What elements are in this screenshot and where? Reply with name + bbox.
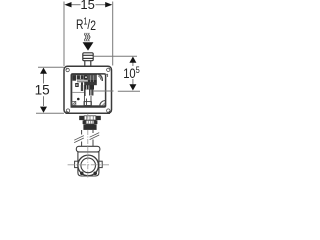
pipe bundle hatch (81, 85, 84, 95)
water supply squiggle symbol (85, 33, 90, 41)
dimension 15 left: down arrowhead (40, 107, 47, 113)
box bottom edge emphasis (66, 113, 111, 115)
reference line inside box (93, 90, 113, 92)
dimension 15 top: left extension line (63, 2, 65, 67)
elbow foot bolt left (80, 172, 84, 176)
lower mechanism blocks (81, 82, 83, 91)
bottom-left hatched block (72, 101, 76, 105)
dimension 15 left: up arrowhead (40, 68, 47, 74)
corner screw bottom-left (66, 109, 69, 112)
dimension 15 left: bottom extension line (36, 112, 64, 114)
dimension 15 top: dimension line (70, 4, 106, 6)
dimension 10^5: up arrowhead (129, 57, 136, 63)
fill valve mid hatch block (77, 79, 88, 82)
elbow body (78, 152, 99, 176)
dimension 10^5: dimension line (132, 63, 134, 67)
flush bend lower quarter arc fillet (100, 101, 106, 107)
fill valve upper dark band (72, 75, 84, 79)
elbow outlet inner circle (81, 158, 96, 173)
elbow foot bolt right (93, 172, 97, 176)
flush pipe walls (82, 130, 93, 146)
corner screw bottom-right (107, 109, 110, 112)
outlet connector dark block (83, 124, 96, 130)
corner screw top-left (66, 68, 69, 71)
small dark dot (77, 98, 80, 101)
supply fitting R1/2 connector (83, 53, 93, 66)
elbow side lug left (75, 161, 78, 167)
flush pipe inside box (84, 90, 86, 97)
dimension 10^5: down arrowhead (129, 84, 136, 90)
corner screw top-right (107, 68, 110, 71)
elbow outlet outer circle (78, 155, 99, 176)
vertical centerline upper (87, 114, 89, 124)
elbow hub (sleeve) (76, 146, 100, 152)
inner frame top edge bar (72, 74, 98, 75)
svg-text:15: 15 (80, 0, 94, 12)
inner service panel frame (71, 74, 105, 107)
dimension 15 left: top extension line (38, 66, 64, 68)
outlet connector below box: nut (79, 116, 101, 120)
bottom-center outlet collar (84, 102, 91, 106)
cistern box outer frame (64, 66, 112, 113)
inner frame left edge bar (71, 75, 73, 107)
vertical centerline lower (87, 146, 89, 177)
fill valve lower-left block with white dot (75, 83, 79, 87)
dimension 15 top: left arrowhead (64, 2, 71, 7)
pipe break marks (74, 133, 99, 143)
supply arrowhead (83, 42, 94, 50)
valve nut with white dot (84, 75, 88, 80)
inner frame bottom edge bar (71, 105, 105, 107)
outlet pipe to panel bottom (84, 96, 91, 105)
horizontal centerline through elbow (68, 164, 109, 166)
elbow side lug right (99, 161, 102, 167)
outlet connector middle layer (83, 120, 98, 124)
bracket right (105, 74, 108, 77)
svg-text:15: 15 (35, 83, 50, 98)
central dark block (84, 85, 94, 90)
dimension 15 left: dimension line (43, 74, 45, 84)
disc stack (flush valve) (88, 75, 97, 82)
dimension 10^5: bottom reference line (93, 90, 113, 92)
shelf line (72, 91, 84, 93)
flush bend upper arc (98, 74, 103, 81)
dimension 15 top: right arrowhead (105, 2, 112, 7)
dimension 10^5: top extension line (94, 55, 137, 57)
dimension 15 top: right extension line (112, 2, 114, 66)
